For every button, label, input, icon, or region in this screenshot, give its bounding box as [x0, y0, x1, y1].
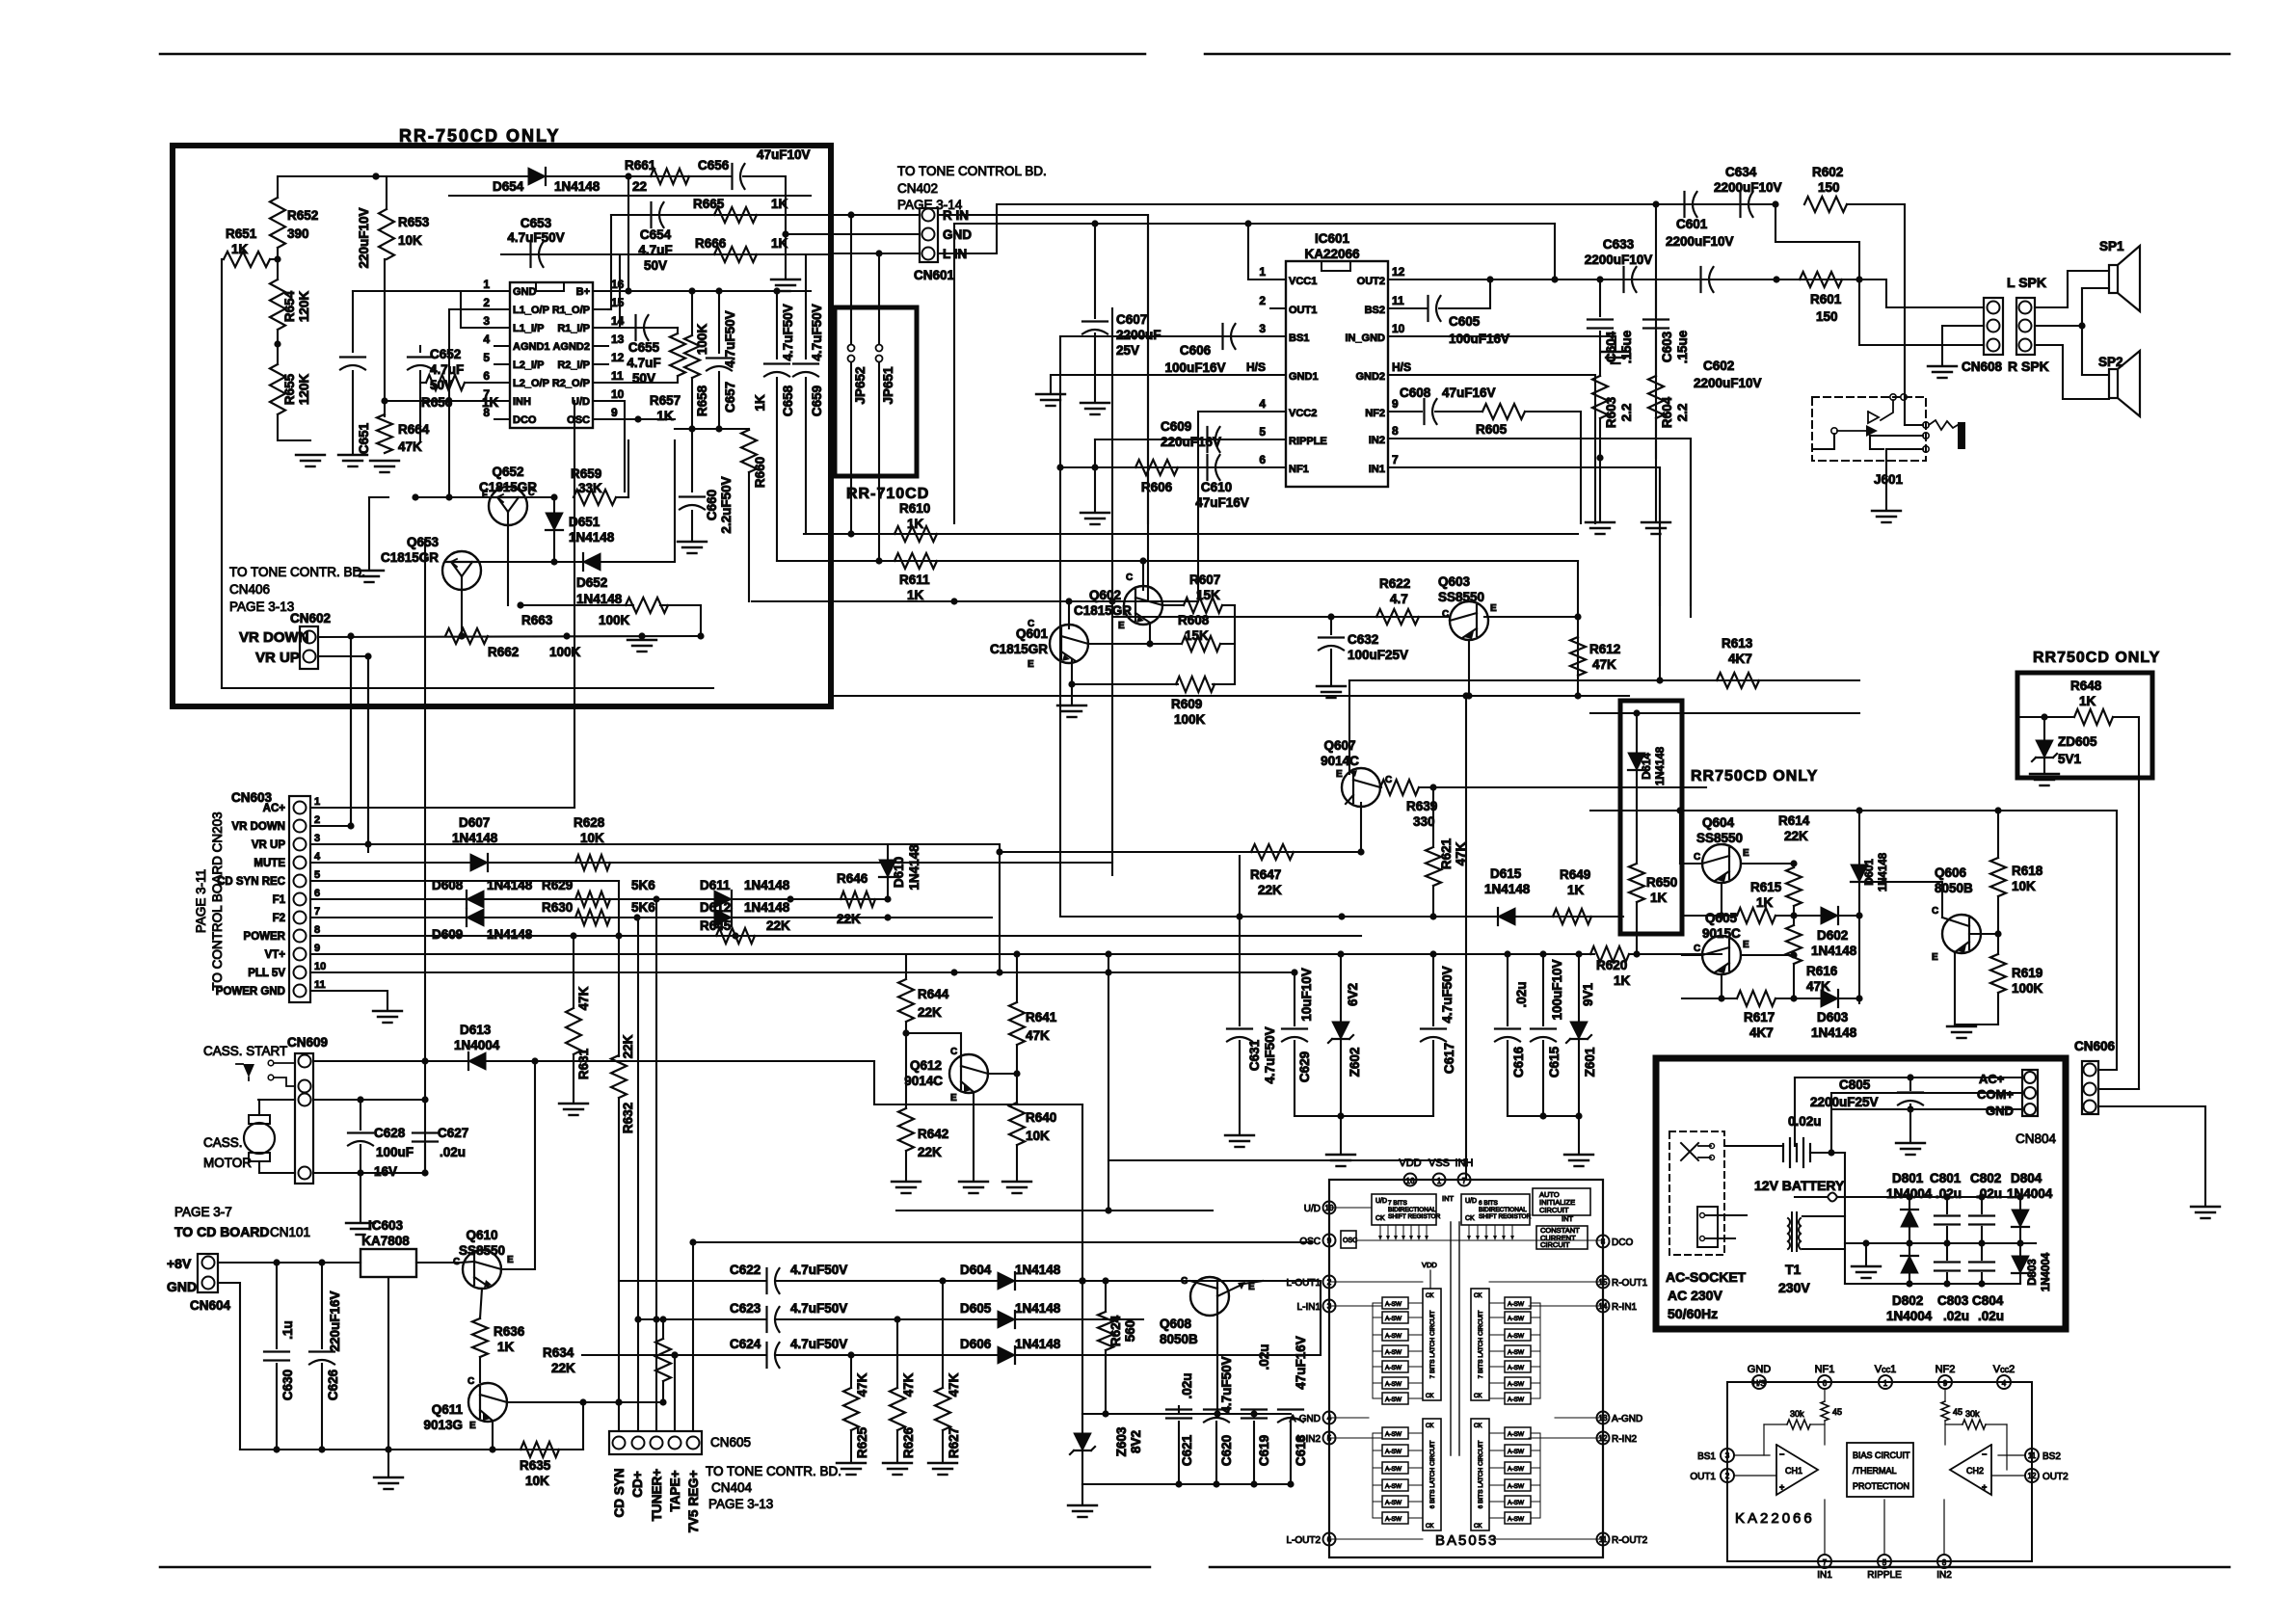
svg-text:BIDIRECTIONAL: BIDIRECTIONAL — [1388, 1207, 1436, 1213]
wire R666 line — [501, 253, 831, 255]
svg-text:16V: 16V — [374, 1164, 397, 1179]
pin 10 — [593, 400, 608, 402]
svg-text:5: 5 — [314, 869, 320, 881]
resistor R631 — [573, 936, 574, 1008]
CN603 pin AC+ — [294, 802, 307, 814]
resistor R659 — [527, 496, 554, 498]
wire VCC1 net — [1248, 224, 1286, 279]
svg-text:D613: D613 — [460, 1023, 492, 1037]
svg-text:R665: R665 — [693, 197, 725, 211]
svg-text:1K: 1K — [907, 517, 924, 531]
svg-text:1K: 1K — [771, 197, 788, 211]
jack switch triangle — [1868, 412, 1879, 423]
diode D602 — [1821, 907, 1838, 924]
resistor 30k left — [1787, 1420, 1810, 1429]
svg-text:2: 2 — [483, 296, 490, 309]
ground — [1564, 1154, 1593, 1156]
svg-text:C652: C652 — [430, 347, 461, 361]
wire Q608 C — [1082, 1280, 1190, 1282]
svg-text:.02u: .02u — [1978, 1309, 2004, 1323]
capacitor C623 line — [637, 1318, 766, 1320]
svg-text:L1_O/P: L1_O/P — [513, 305, 549, 316]
svg-text:2: 2 — [1259, 294, 1266, 307]
pin 5 — [494, 363, 510, 365]
RR-710CD block border — [835, 307, 917, 476]
svg-text:15: 15 — [611, 296, 625, 309]
svg-text:4K7: 4K7 — [1728, 652, 1752, 666]
resistor R640 — [1009, 1103, 1025, 1145]
wire Q601 B — [1088, 643, 1180, 645]
svg-text:SS8550: SS8550 — [1438, 590, 1484, 604]
svg-text:TO TONE CONTR. BD.: TO TONE CONTR. BD. — [706, 1464, 841, 1478]
capacitor C653 — [529, 242, 531, 267]
svg-text:5V1: 5V1 — [2058, 752, 2082, 766]
svg-text:220uF16V: 220uF16V — [1161, 435, 1221, 449]
svg-text:TO TONE CONTROL BD.: TO TONE CONTROL BD. — [897, 164, 1047, 178]
svg-text:4.7: 4.7 — [1390, 592, 1408, 606]
svg-text:A-SW: A-SW — [1385, 1431, 1402, 1438]
svg-text:CK: CK — [1474, 1423, 1482, 1429]
ground — [959, 1181, 988, 1183]
svg-text:CN402: CN402 — [897, 181, 938, 196]
svg-text:9013G: 9013G — [423, 1418, 463, 1432]
wire L IN right — [938, 204, 1656, 253]
svg-text:5: 5 — [1882, 1558, 1887, 1567]
svg-text:R632: R632 — [621, 1103, 635, 1133]
wire bottom rail — [1082, 1483, 1291, 1485]
diode D803 — [2019, 1243, 2021, 1256]
svg-text:MUTE: MUTE — [254, 858, 285, 869]
svg-text:INT: INT — [1562, 1214, 1574, 1223]
resistor 30k right — [1962, 1420, 1986, 1429]
wire CN608 mid gnd — [1942, 326, 1984, 364]
svg-text:.02u: .02u — [1976, 1186, 2002, 1201]
svg-text:C631: C631 — [1247, 1039, 1262, 1071]
svg-text:47K: 47K — [947, 1372, 961, 1397]
wire IC603 out — [416, 1262, 461, 1264]
ground — [1326, 1154, 1355, 1156]
capacitor C616 — [1507, 954, 1508, 1025]
capacitor C652 — [419, 346, 421, 352]
svg-text:CD SYN: CD SYN — [612, 1468, 627, 1517]
resistor R601 — [1800, 272, 1842, 287]
wire MUTE line — [310, 862, 1112, 864]
wire x1191 drop — [1147, 215, 1149, 601]
wire R611 right — [1577, 561, 1579, 696]
svg-text:−: − — [1982, 1450, 1987, 1459]
svg-text:CN604: CN604 — [190, 1298, 231, 1313]
resistor R654 — [270, 279, 285, 330]
svg-text:Z603: Z603 — [1114, 1426, 1129, 1456]
diode D609 — [467, 909, 484, 926]
svg-text:100uF10V: 100uF10V — [1550, 959, 1564, 1020]
ground — [1865, 1243, 1867, 1264]
resistor R611 — [777, 560, 1578, 562]
wire y232 bus — [954, 223, 1555, 225]
svg-text:BS1: BS1 — [1289, 333, 1309, 344]
svg-text:SHIFT REGISTOR: SHIFT REGISTOR — [1388, 1213, 1441, 1220]
svg-text:R606: R606 — [1141, 480, 1173, 494]
BA5053 right pins — [1597, 1236, 1610, 1248]
svg-text:CN602: CN602 — [290, 611, 331, 625]
ground — [2030, 773, 2059, 775]
svg-text:C: C — [467, 1376, 474, 1387]
svg-text:100K: 100K — [1174, 712, 1206, 727]
CN603 pin MUTE — [294, 857, 307, 869]
transistor Q605 — [1702, 936, 1741, 974]
wire R613 line — [1659, 467, 1661, 680]
diode D607 — [470, 854, 488, 871]
svg-text:H/S: H/S — [1246, 360, 1266, 374]
svg-text:Q603: Q603 — [1438, 574, 1471, 589]
pin 4 — [494, 345, 510, 347]
diode D654 — [528, 168, 546, 185]
wire Q611 B — [507, 1401, 663, 1403]
svg-text:D610: D610 — [892, 857, 906, 888]
KA22066 top pins — [1752, 1375, 1766, 1389]
svg-text:R642: R642 — [918, 1127, 948, 1141]
KA22066 wires — [1734, 1454, 1770, 1456]
capacitor C618 — [1278, 1408, 1303, 1410]
svg-text:VR UP: VR UP — [255, 650, 300, 666]
wire BS1 — [1060, 335, 1286, 337]
wire GND drop — [218, 1283, 240, 1450]
svg-text:0.02u: 0.02u — [1788, 1114, 1822, 1129]
svg-text:8: 8 — [314, 924, 320, 936]
ground — [346, 1222, 375, 1224]
constant current box — [1536, 1226, 1588, 1249]
svg-text:R603: R603 — [1604, 396, 1618, 428]
svg-text:7 BITS LATCH CIRCUIT: 7 BITS LATCH CIRCUIT — [1429, 1311, 1436, 1379]
svg-text:100uF16V: 100uF16V — [1449, 332, 1509, 346]
svg-text:RR-710CD: RR-710CD — [846, 486, 929, 502]
wire Q602 C — [1142, 561, 1144, 590]
svg-text:3: 3 — [1259, 322, 1266, 335]
svg-text:1K: 1K — [1614, 973, 1631, 988]
svg-text:A-SW: A-SW — [1385, 1301, 1402, 1308]
resistor R649 — [1553, 909, 1591, 924]
svg-text:C657: C657 — [723, 382, 737, 412]
svg-text:R662: R662 — [488, 645, 519, 659]
svg-text:9V1: 9V1 — [1581, 983, 1595, 1007]
wire D604 net right — [1320, 1281, 1322, 1355]
wire R665 line — [611, 214, 831, 216]
svg-text:SHIFT REGISTOR: SHIFT REGISTOR — [1479, 1213, 1532, 1220]
svg-text:C: C — [453, 1257, 460, 1267]
capacitor C659 — [805, 254, 807, 359]
svg-text:4.7uF: 4.7uF — [430, 362, 464, 377]
IC601 pin BS1 — [1270, 335, 1286, 337]
svg-text:22K: 22K — [837, 912, 861, 926]
svg-text:100K: 100K — [2012, 981, 2043, 996]
wire Q601 C — [1068, 601, 1070, 628]
svg-text:2.2: 2.2 — [1675, 404, 1690, 422]
resistor R606 — [1135, 460, 1178, 475]
svg-text:11: 11 — [314, 979, 326, 991]
top rule right — [1205, 53, 2229, 56]
wire channel B to CN608 — [1775, 204, 1984, 345]
IC601 pin NF1 — [1270, 466, 1286, 468]
wire Q612 B — [988, 1073, 1017, 1075]
svg-text:9014C: 9014C — [1321, 754, 1359, 768]
svg-text:U/D: U/D — [1375, 1198, 1387, 1205]
svg-text:R666: R666 — [695, 236, 727, 251]
ground — [1081, 402, 1109, 404]
svg-text:F2: F2 — [273, 913, 285, 924]
svg-text:1N4148: 1N4148 — [1811, 944, 1857, 958]
svg-text:A-SW: A-SW — [1385, 1365, 1402, 1371]
svg-text:1K: 1K — [1567, 883, 1585, 897]
svg-text:1: 1 — [314, 796, 320, 808]
svg-text:GND1: GND1 — [1289, 371, 1319, 383]
wire Q607 E — [1348, 680, 1350, 774]
svg-text:4: 4 — [2002, 1379, 2007, 1388]
svg-text:100K: 100K — [549, 645, 581, 659]
wire 7V5 bus — [693, 1241, 1311, 1243]
wire y624 bus — [752, 600, 1198, 602]
transistor Q652 — [489, 487, 527, 525]
svg-text:R624: R624 — [1108, 1315, 1123, 1346]
zener Z601 — [1578, 954, 1580, 1022]
wire pin1 gnd — [353, 290, 494, 292]
svg-text:R613: R613 — [1722, 636, 1753, 651]
connector CN804 — [2022, 1070, 2038, 1116]
IC601 pin NF2 — [1388, 411, 1403, 412]
wire CD SYN riser R632 — [618, 881, 620, 1056]
resistor R624 — [1105, 1281, 1107, 1311]
svg-text:2200uF10V: 2200uF10V — [1694, 376, 1762, 390]
pin 16 — [593, 290, 608, 292]
svg-text:E: E — [1490, 603, 1497, 614]
zener Z603 — [1081, 1414, 1083, 1433]
svg-text:R616: R616 — [1806, 964, 1838, 978]
connector CN608 R — [2016, 298, 2035, 355]
wire R602 out — [1847, 204, 1905, 425]
svg-text:R2_I/P: R2_I/P — [557, 359, 590, 371]
ground — [883, 1462, 912, 1464]
resistor R604 — [1648, 376, 1664, 418]
svg-text:D609: D609 — [432, 927, 463, 942]
shift register left — [1372, 1194, 1436, 1225]
svg-text:R656: R656 — [421, 395, 453, 410]
BA5053 left pins — [1323, 1202, 1336, 1214]
svg-text:Q607: Q607 — [1323, 738, 1355, 753]
svg-text:1K: 1K — [907, 588, 924, 602]
svg-text:TAPE+: TAPE+ — [668, 1470, 682, 1511]
fuse — [1828, 1193, 1837, 1202]
svg-text:R612: R612 — [1589, 642, 1620, 656]
svg-text:VR DOWN: VR DOWN — [239, 629, 309, 646]
diode D611 — [714, 891, 732, 908]
svg-text:PROTECTION: PROTECTION — [1853, 1481, 1909, 1491]
ground — [355, 570, 384, 572]
svg-text:BA5053: BA5053 — [1435, 1532, 1498, 1549]
wire IN2 — [1388, 439, 1691, 605]
svg-text:30k: 30k — [1965, 1409, 1980, 1419]
svg-text:E: E — [1743, 848, 1749, 859]
resistor R609 — [1072, 683, 1178, 685]
wire pin3 — [461, 293, 494, 328]
ground — [370, 460, 399, 462]
svg-text:L1_I/P: L1_I/P — [513, 323, 544, 334]
svg-text:10K: 10K — [398, 233, 422, 248]
svg-text:C620: C620 — [1219, 1435, 1234, 1466]
resistor R626 — [896, 1319, 898, 1388]
wire jack tip — [1905, 424, 1923, 426]
svg-text:D604: D604 — [960, 1263, 992, 1277]
svg-text:DCO: DCO — [1612, 1237, 1633, 1248]
svg-text:5K6: 5K6 — [631, 900, 655, 915]
diode D615 — [1498, 908, 1515, 925]
svg-text:R635: R635 — [520, 1458, 551, 1473]
RR-750CD ONLY block border — [173, 146, 831, 706]
svg-text:22K: 22K — [621, 1034, 635, 1058]
svg-text:C: C — [1442, 609, 1449, 620]
svg-text:D606: D606 — [960, 1337, 992, 1351]
diode D603 — [1821, 990, 1838, 1007]
svg-text:R-IN2: R-IN2 — [1612, 1434, 1638, 1445]
svg-text:R602: R602 — [1812, 165, 1843, 179]
svg-text:8V2: 8V2 — [1129, 1430, 1143, 1453]
capacitor C658 — [776, 291, 778, 359]
resistor R655 — [270, 364, 285, 414]
svg-text:CN601: CN601 — [914, 268, 955, 282]
svg-text:Q608: Q608 — [1160, 1317, 1192, 1331]
connector CN602 — [300, 626, 318, 669]
svg-text:9015C: 9015C — [1702, 926, 1741, 941]
svg-text:1K: 1K — [1756, 895, 1774, 910]
resistor R605 — [1482, 404, 1525, 419]
battery 12V — [1782, 1144, 1784, 1161]
jumper JP652 — [850, 215, 852, 343]
wire pin9 OSC — [608, 418, 675, 420]
svg-text:INT: INT — [1442, 1194, 1455, 1203]
capacitor C609 — [1206, 427, 1208, 452]
wire GND1 — [1051, 375, 1286, 392]
svg-text:J601: J601 — [1874, 472, 1904, 487]
bias box — [1847, 1443, 1913, 1497]
svg-text:.1u: .1u — [280, 1320, 295, 1340]
svg-text:D652: D652 — [576, 575, 607, 590]
svg-text:C: C — [1932, 906, 1938, 917]
svg-text:Q606: Q606 — [1935, 865, 1967, 880]
svg-text:D607: D607 — [459, 815, 490, 830]
CN603 pin VR DOWN — [294, 820, 307, 833]
capacitor C608 — [1388, 411, 1422, 412]
BA5053 top pins — [1404, 1174, 1417, 1186]
capacitor C630 — [276, 1263, 278, 1348]
svg-text:R1_I/P: R1_I/P — [557, 323, 590, 334]
wire y841 — [1590, 810, 2117, 811]
svg-text:R647: R647 — [1250, 867, 1281, 882]
wire VR DOWN — [318, 636, 701, 637]
svg-text:C1815GR: C1815GR — [990, 642, 1048, 656]
resistor R602 — [1804, 197, 1847, 212]
svg-text:C601: C601 — [1676, 217, 1708, 231]
svg-text:POWER: POWER — [244, 931, 286, 943]
svg-text:R-OUT1: R-OUT1 — [1612, 1278, 1648, 1289]
resistor R646 — [841, 891, 875, 907]
transistor Q653 — [442, 551, 481, 590]
resistor R663 — [521, 604, 633, 606]
wire NF1 — [1060, 466, 1286, 468]
svg-text:C616: C616 — [1511, 1046, 1526, 1078]
KA22066 left pins — [1721, 1449, 1734, 1462]
svg-text:D602: D602 — [1817, 928, 1848, 943]
svg-text:Q611: Q611 — [432, 1402, 464, 1417]
svg-text:7V5 REG+: 7V5 REG+ — [686, 1470, 701, 1532]
svg-text:C604: C604 — [1604, 331, 1618, 362]
ground — [296, 454, 325, 456]
wire out line A — [1600, 279, 1859, 280]
svg-text:.15ue: .15ue — [1675, 330, 1690, 363]
zener Z602 — [1340, 954, 1342, 1022]
svg-text:R634: R634 — [543, 1345, 574, 1360]
wire J601 feed — [1812, 434, 1834, 449]
wire Q602 E — [1149, 623, 1151, 644]
pin 13 — [593, 345, 608, 347]
svg-text:10: 10 — [1392, 322, 1405, 335]
svg-text:CN406: CN406 — [229, 582, 270, 597]
svg-text:2: 2 — [1725, 1472, 1730, 1480]
svg-text:Q652: Q652 — [492, 465, 523, 479]
svg-text:C602: C602 — [1703, 359, 1734, 373]
svg-text:A-SW: A-SW — [1508, 1431, 1525, 1438]
capacitor C603 — [1655, 279, 1657, 316]
svg-text:+: + — [1779, 1482, 1784, 1492]
svg-text:16: 16 — [611, 278, 625, 291]
wire B+ net — [608, 290, 811, 292]
svg-text:1: 1 — [1259, 265, 1266, 279]
svg-text:C621: C621 — [1180, 1434, 1194, 1466]
svg-text:47K: 47K — [901, 1372, 916, 1397]
svg-text:L-OUT2: L-OUT2 — [1286, 1535, 1321, 1546]
wire CN606 pin2 — [2098, 1088, 2139, 1090]
svg-text:KA22066: KA22066 — [1735, 1510, 1815, 1527]
capacitor C626 — [321, 1263, 323, 1348]
svg-text:R651: R651 — [226, 226, 257, 241]
wire pin15 — [608, 308, 611, 310]
bottom rule left — [160, 1566, 1150, 1569]
IC601 pin OUT1 — [1270, 307, 1286, 309]
svg-text:C627: C627 — [438, 1126, 468, 1140]
resistor R608 — [1182, 636, 1220, 652]
top rule left — [160, 53, 1145, 56]
resistor R652 — [270, 198, 285, 248]
zener ZD605 — [2043, 717, 2045, 740]
resistor R614 — [1741, 863, 1794, 865]
svg-text:U/D: U/D — [1304, 1204, 1321, 1214]
wire x441 drop — [424, 540, 426, 1173]
svg-text:8: 8 — [1942, 1558, 1947, 1567]
CN603 pin VR UP — [294, 838, 307, 851]
IC601 pin BS2 — [1388, 307, 1403, 309]
svg-text:220uF16V: 220uF16V — [328, 1290, 342, 1351]
wire GND row — [1833, 1108, 2022, 1110]
svg-text:Q653: Q653 — [407, 535, 440, 549]
resistor R619 — [1990, 954, 2006, 993]
wire pin10 U/D — [608, 401, 625, 492]
resistor R644 — [905, 954, 907, 977]
svg-text:.15ue: .15ue — [1619, 330, 1634, 363]
wire R655 bottom — [278, 414, 310, 440]
center bus — [1450, 1222, 1452, 1455]
svg-text:9014C: 9014C — [904, 1074, 943, 1088]
svg-text:CH2: CH2 — [1966, 1466, 1984, 1476]
svg-text:230V: 230V — [1778, 1280, 1810, 1295]
svg-text:GND2: GND2 — [1355, 371, 1385, 383]
svg-text:6 BITS LATCH CIRCUIT: 6 BITS LATCH CIRCUIT — [1429, 1441, 1436, 1509]
